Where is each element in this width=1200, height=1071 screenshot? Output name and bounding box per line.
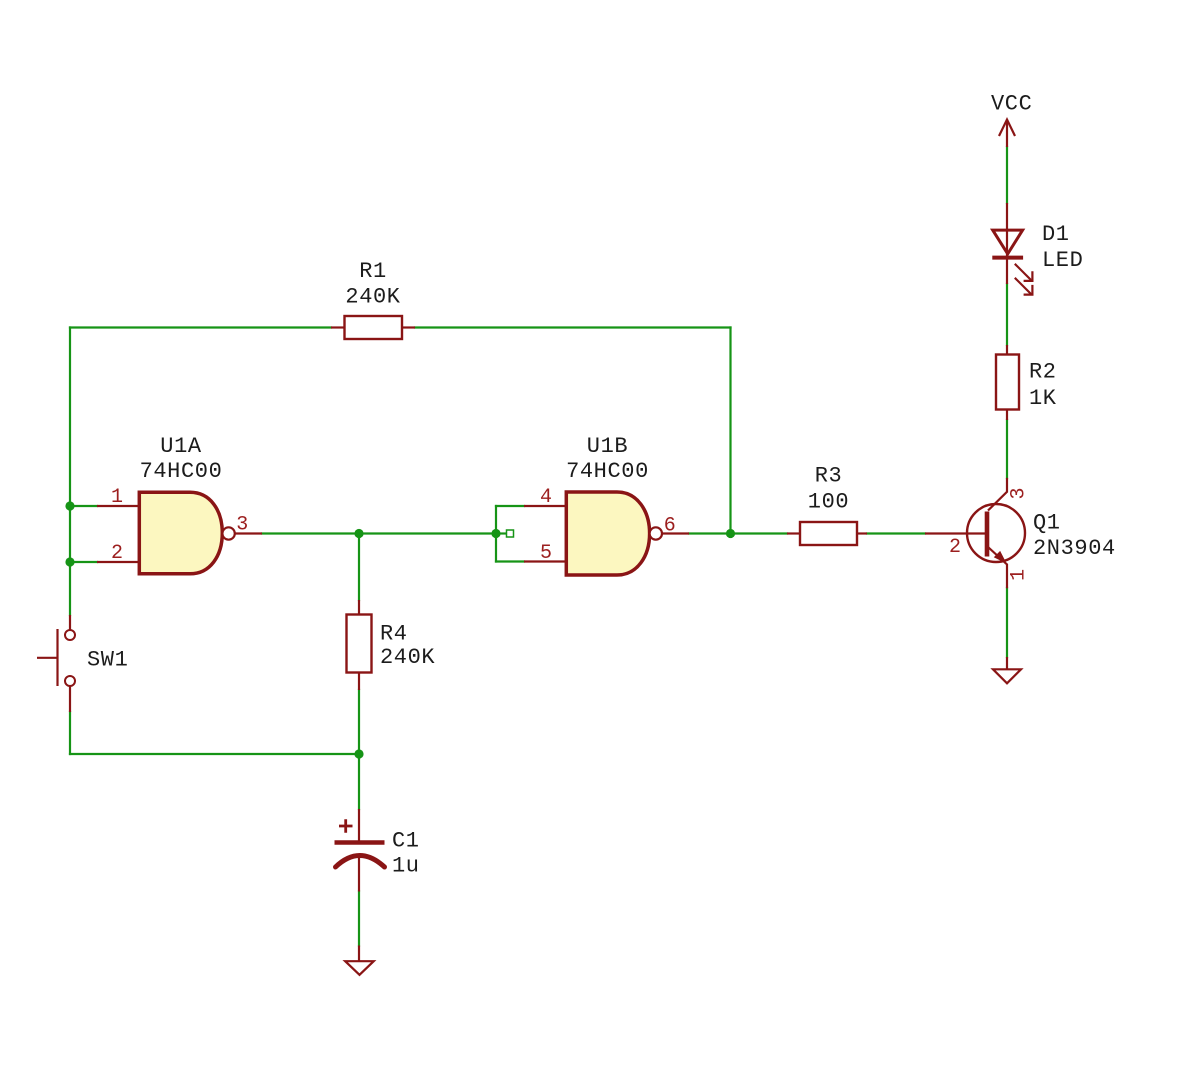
svg-text:VCC: VCC <box>991 92 1032 117</box>
svg-text:1K: 1K <box>1029 386 1057 411</box>
svg-text:R4: R4 <box>380 622 408 647</box>
svg-text:R2: R2 <box>1029 360 1057 385</box>
svg-text:R1: R1 <box>359 259 387 284</box>
svg-text:240K: 240K <box>345 285 400 310</box>
svg-text:R3: R3 <box>815 464 843 489</box>
svg-text:4: 4 <box>540 486 552 509</box>
svg-text:100: 100 <box>808 490 849 515</box>
svg-text:U1A: U1A <box>160 434 202 459</box>
svg-text:240K: 240K <box>380 645 435 670</box>
svg-text:SW1: SW1 <box>87 648 128 673</box>
svg-text:1u: 1u <box>392 854 420 879</box>
svg-text:D1: D1 <box>1042 222 1070 247</box>
svg-text:74HC00: 74HC00 <box>566 459 649 484</box>
svg-text:3: 3 <box>236 514 248 537</box>
svg-text:Q1: Q1 <box>1033 511 1061 536</box>
svg-text:74HC00: 74HC00 <box>140 459 223 484</box>
svg-text:6: 6 <box>664 515 676 538</box>
svg-text:2N3904: 2N3904 <box>1033 536 1116 561</box>
svg-text:U1B: U1B <box>587 434 628 459</box>
svg-text:1: 1 <box>111 486 123 509</box>
svg-text:2: 2 <box>949 536 961 559</box>
svg-text:2: 2 <box>111 542 123 565</box>
svg-text:3: 3 <box>1008 487 1031 499</box>
svg-text:C1: C1 <box>392 829 420 854</box>
svg-text:1: 1 <box>1008 569 1031 581</box>
svg-text:LED: LED <box>1042 248 1083 273</box>
svg-text:5: 5 <box>540 542 552 565</box>
